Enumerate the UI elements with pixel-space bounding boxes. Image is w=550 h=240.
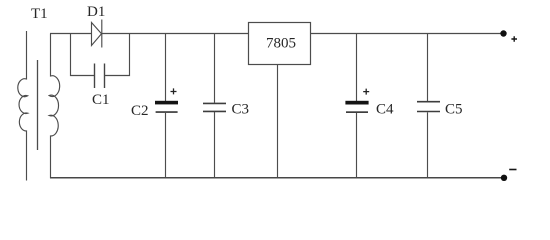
capacitor C5 [417, 102, 440, 112]
svg-text:C5: C5 [445, 102, 463, 118]
capacitor C4 (electrolytic) [345, 101, 368, 113]
transformer T1 secondary winding [49, 34, 60, 179]
node output positive label [511, 36, 517, 42]
wire 7805 ground pin [277, 65, 279, 179]
node output positive terminal [500, 30, 506, 36]
svg-text:C1: C1 [92, 92, 110, 108]
node output negative label [509, 169, 516, 171]
transformer T1 core [37, 60, 39, 150]
svg-text:C4: C4 [376, 102, 394, 118]
node output negative terminal [501, 175, 507, 181]
wire C4 branch upper [356, 34, 358, 102]
capacitor C4 plus sign [363, 89, 369, 95]
wire C2 branch lower [165, 113, 167, 178]
diode D1 [92, 20, 102, 48]
svg-text:T1: T1 [31, 6, 48, 22]
svg-text:C3: C3 [232, 102, 250, 118]
capacitor C1 [95, 64, 105, 89]
capacitor C3 [203, 103, 226, 111]
wire top rail right segment (cathode to output) [102, 33, 504, 35]
svg-text:7805: 7805 [266, 36, 296, 52]
wire C5 branch lower [427, 112, 429, 178]
wire C2 branch upper [165, 34, 167, 102]
wire top rail left segment (anode side) [50, 33, 92, 35]
wire bottom rail [50, 177, 504, 179]
capacitor C2 (electrolytic) [155, 101, 178, 113]
wire C4 branch lower [356, 113, 358, 178]
svg-text:C2: C2 [131, 103, 149, 119]
capacitor C1 parallel loop right wire [105, 34, 130, 76]
transformer T1 primary winding [18, 31, 28, 181]
capacitor C2 plus sign [171, 88, 177, 94]
wire C3 branch upper [214, 34, 216, 103]
wire C3 branch lower [214, 112, 216, 178]
capacitor C1 parallel loop left wire [71, 34, 95, 76]
regulator U1 7805 box [249, 23, 311, 65]
svg-text:D1: D1 [87, 4, 105, 20]
wire C5 branch upper [427, 34, 429, 102]
